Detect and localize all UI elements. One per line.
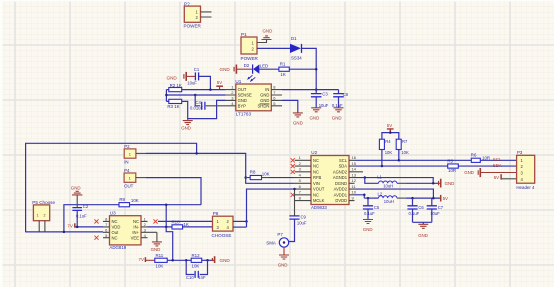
- svg-text:RFB: RFB: [313, 175, 321, 180]
- svg-text:AVDD2: AVDD2: [334, 187, 348, 192]
- svg-text:GND: GND: [260, 98, 269, 103]
- svg-text:10K: 10K: [156, 264, 164, 269]
- svg-text:L2: L2: [378, 191, 383, 196]
- svg-text:P7: P7: [277, 232, 283, 237]
- ground below U3 pin3: [151, 232, 162, 252]
- U3 right pin stubs: [141, 221, 157, 237]
- svg-text:GND: GND: [418, 233, 428, 238]
- svg-text:AVDD1: AVDD1: [334, 192, 348, 197]
- wire R9 row: [64, 205, 201, 232]
- svg-text:P5 Choose: P5 Choose: [32, 200, 55, 205]
- svg-text:CHOOSE: CHOOSE: [212, 233, 232, 238]
- resistor R4 10K (vertical): [379, 139, 392, 155]
- svg-text:DGND: DGND: [335, 181, 347, 186]
- svg-text:D2: D2: [244, 63, 250, 68]
- 5V port at U1 OUT: [216, 80, 223, 90]
- svg-text:2: 2: [44, 214, 46, 218]
- svg-text:GND: GND: [293, 121, 303, 126]
- capacitor C9 10uF: [289, 214, 307, 241]
- inductor L2 10uH: [378, 191, 397, 204]
- svg-text:P4: P4: [124, 168, 130, 173]
- svg-text:0.1uF: 0.1uF: [76, 214, 87, 219]
- svg-text:SENSE: SENSE: [238, 93, 252, 98]
- svg-text:NC: NC: [112, 219, 118, 224]
- ground below SMA: [278, 247, 289, 267]
- svg-text:LED: LED: [260, 63, 269, 68]
- svg-text:GND: GND: [263, 28, 273, 33]
- svg-text:R4: R4: [385, 139, 391, 144]
- svg-text:C6: C6: [418, 205, 424, 210]
- wire IN line: [282, 89, 339, 91]
- svg-text:R6: R6: [471, 152, 477, 157]
- ground below BYP loop: [181, 119, 193, 131]
- svg-text:10R: 10R: [482, 156, 490, 161]
- capacitor C8 0.1uF: [332, 90, 349, 108]
- op-amp U3 ADG819: [105, 211, 147, 251]
- resistor R3 1K: [167, 99, 181, 109]
- no-connect x U3 pin5: [94, 236, 98, 240]
- svg-text:10K: 10K: [401, 150, 409, 155]
- svg-text:SS34: SS34: [291, 56, 302, 61]
- U2 left pin stubs: [295, 160, 311, 200]
- svg-text:IN: IN: [265, 87, 269, 92]
- wire VOUT down to C9: [294, 189, 296, 216]
- U3 left pin stubs: [103, 221, 110, 237]
- svg-text:14: 14: [352, 167, 357, 172]
- regulator U1 LT1763: [231, 79, 276, 116]
- connector P3 Header 4: [516, 150, 535, 190]
- svg-text:AGND1: AGND1: [333, 175, 348, 180]
- svg-text:NC: NC: [133, 219, 139, 224]
- svg-text:GND: GND: [310, 116, 320, 121]
- svg-text:P6: P6: [213, 211, 219, 216]
- svg-text:R1: R1: [280, 62, 286, 67]
- P4 pin stub: [136, 177, 146, 179]
- connector P6 CHOOSE: [212, 211, 234, 238]
- svg-text:U3: U3: [110, 211, 116, 216]
- wire GND to LED D2: [237, 68, 253, 70]
- svg-text:U2: U2: [311, 150, 317, 155]
- svg-text:NC: NC: [313, 169, 319, 174]
- svg-text:R8: R8: [250, 170, 256, 175]
- svg-text:10K: 10K: [131, 198, 139, 203]
- svg-text:13: 13: [352, 172, 357, 177]
- wire L2 out to 5V port: [397, 197, 406, 199]
- resistor R2 1K: [169, 83, 182, 92]
- svg-text:R10: R10: [172, 220, 181, 225]
- wire P1 pin2 to D1: [257, 47, 290, 49]
- DDS U2 AD9833: [299, 150, 357, 210]
- no-connect x U2 pin1: [291, 158, 295, 162]
- wire OUT net to R9 line: [146, 178, 201, 205]
- svg-text:Out: Out: [112, 230, 120, 235]
- svg-text:Header 4: Header 4: [516, 185, 535, 190]
- inductor L1 10uH: [377, 175, 397, 189]
- svg-text:C1: C1: [194, 67, 200, 72]
- ground port right of L1: [439, 179, 441, 188]
- svg-text:GND: GND: [278, 263, 288, 268]
- svg-text:C4: C4: [196, 100, 202, 105]
- svg-text:GND: GND: [167, 75, 178, 80]
- svg-text:5V: 5V: [494, 175, 499, 180]
- diode D1 SS34: [290, 36, 302, 61]
- LED D2: [244, 63, 269, 81]
- svg-text:P?: P?: [184, 1, 190, 6]
- svg-text:POWER: POWER: [184, 24, 202, 29]
- svg-text:0.1uF: 0.1uF: [364, 211, 375, 216]
- svg-text:7V: 7V: [139, 257, 144, 262]
- svg-text:P3: P3: [517, 150, 523, 155]
- svg-text:0.01uF: 0.01uF: [190, 106, 203, 111]
- wire SCL row: [355, 159, 517, 161]
- wire U3 pin1 row to P6: [158, 220, 213, 222]
- svg-text:R11: R11: [156, 253, 164, 258]
- svg-text:NC: NC: [112, 235, 118, 240]
- svg-text:1nF: 1nF: [198, 275, 206, 280]
- svg-text:R3 1K: R3 1K: [167, 104, 179, 109]
- svg-text:5V: 5V: [387, 123, 392, 128]
- capacitor C6 0.1uF: [407, 198, 424, 222]
- wire SDA row: [355, 165, 517, 167]
- svg-text:IN-: IN-: [133, 225, 139, 230]
- wire R3 to U1 GND pin (loop): [182, 100, 226, 118]
- no-connect x U3 pin1: [153, 219, 157, 223]
- wire L1 out to GND port: [397, 182, 406, 184]
- wire P6 pin4 corner: [233, 226, 247, 228]
- junction C1 at OUT: [209, 88, 212, 91]
- wire IN net horizontal: [146, 153, 295, 183]
- svg-text:GND: GND: [220, 67, 231, 72]
- svg-text:OUT: OUT: [238, 87, 247, 92]
- wire jog junction to R11 node: [166, 227, 173, 260]
- wire pull-up top rail: [382, 133, 399, 140]
- wire U1 GND pin to ground: [282, 100, 298, 113]
- wire R7 down to SCL: [398, 150, 400, 161]
- svg-text:OUT: OUT: [124, 184, 134, 189]
- svg-text:AGND2: AGND2: [333, 169, 348, 174]
- wire U3 pin2 row / R10 row: [148, 226, 173, 228]
- svg-text:NC: NC: [313, 164, 319, 169]
- wire R11 to R12: [167, 259, 191, 261]
- svg-text:GND: GND: [71, 185, 81, 190]
- connector P5 Choose: [32, 200, 55, 221]
- ground above P1 (inverted): [262, 36, 272, 40]
- svg-text:IN+: IN+: [132, 230, 139, 235]
- svg-text:GND: GND: [464, 170, 474, 175]
- connector P1 POWER: [241, 32, 259, 61]
- junction IN net: [195, 152, 198, 155]
- U2 right pin stubs: [349, 160, 363, 200]
- svg-text:C9: C9: [301, 214, 307, 219]
- junction at IN line: [315, 88, 318, 91]
- svg-text:VOUT: VOUT: [313, 187, 325, 192]
- svg-text:C5: C5: [374, 205, 380, 210]
- connector P? POWER (top): [184, 1, 202, 28]
- svg-text:AD9833: AD9833: [311, 205, 327, 210]
- svg-text:C7: C7: [438, 205, 444, 210]
- ground port right of R12: [212, 256, 214, 263]
- svg-text:L1: L1: [377, 175, 382, 180]
- svg-text:7V: 7V: [67, 224, 72, 229]
- svg-text:GND: GND: [332, 116, 342, 121]
- capacitor C2 0.1uF: [72, 195, 88, 227]
- svg-text:10uF: 10uF: [430, 211, 440, 216]
- svg-text:GND: GND: [363, 227, 373, 232]
- svg-text:GND: GND: [260, 93, 269, 98]
- ground below C8: [334, 108, 344, 112]
- wire VOUT net: [247, 189, 295, 227]
- svg-text:R12: R12: [192, 253, 201, 258]
- no-connect x U3 pin8: [94, 219, 98, 223]
- wire SENSE row: [166, 94, 225, 96]
- junction RFB tap on IN net: [244, 176, 247, 179]
- svg-text:GND: GND: [445, 181, 455, 186]
- wire R4 down to SDA: [381, 150, 383, 167]
- svg-text:1K: 1K: [183, 222, 188, 227]
- U1 right pin stubs: [271, 90, 282, 106]
- junction input node at R1: [315, 68, 318, 71]
- pin stubs P?: [201, 12, 212, 17]
- svg-text:P2: P2: [124, 144, 130, 149]
- svg-text:R5: R5: [447, 158, 453, 163]
- SMA connector P7: [266, 232, 288, 247]
- svg-text:ADG819: ADG819: [109, 245, 126, 250]
- svg-text:10uH: 10uH: [384, 199, 394, 204]
- svg-text:LT1763: LT1763: [236, 111, 252, 116]
- wire down to L1 row: [365, 178, 379, 184]
- svg-text:10uH: 10uH: [383, 184, 393, 189]
- svg-text:10R: 10R: [448, 168, 456, 173]
- svg-text:10uF: 10uF: [297, 221, 307, 226]
- svg-text:VEE: VEE: [131, 235, 140, 240]
- wire C6 C7 bottom rail: [413, 222, 432, 224]
- svg-text:GND: GND: [181, 126, 191, 131]
- svg-text:VIN: VIN: [313, 181, 320, 186]
- wire P6 pin2 to VOUT net: [233, 220, 247, 222]
- wire AVDD1 row (pin10): [355, 195, 365, 198]
- U1 left pin stubs: [226, 90, 236, 106]
- svg-text:16: 16: [352, 155, 357, 160]
- svg-text:GND: GND: [238, 98, 247, 103]
- svg-text:C8: C8: [343, 92, 349, 97]
- wire 7V to R11: [146, 259, 155, 261]
- wire IN net top loop: [26, 143, 197, 232]
- svg-text:12: 12: [352, 178, 357, 183]
- svg-text:GND: GND: [220, 258, 231, 263]
- capacitor C5 0.1uF: [363, 197, 380, 220]
- ground below C5: [363, 220, 373, 224]
- svg-text:R7: R7: [402, 139, 408, 144]
- resistor R6 10R (SCL): [471, 152, 490, 162]
- svg-text:SCL: SCL: [493, 157, 502, 162]
- ground below C6 C7: [418, 224, 428, 228]
- resistor R10 1K: [172, 220, 189, 229]
- vertical joining R2 R3 SENSE: [166, 90, 168, 102]
- svg-text:SMA: SMA: [266, 241, 276, 246]
- wire R1 to input node: [289, 68, 316, 70]
- resistor R11 10K: [155, 253, 167, 268]
- svg-text:0.1uF: 0.1uF: [409, 211, 420, 216]
- svg-text:IN: IN: [124, 159, 128, 164]
- svg-text:SCL: SCL: [339, 158, 348, 163]
- resistor R9 10K: [119, 197, 139, 207]
- svg-text:SDA: SDA: [493, 163, 502, 168]
- svg-text:NC: NC: [313, 192, 319, 197]
- wire D1 to input node: [302, 48, 317, 89]
- svg-text:10uF: 10uF: [187, 80, 197, 85]
- resistor R7 10K (vertical): [396, 139, 409, 155]
- svg-text:D1: D1: [291, 36, 297, 41]
- wire OUT row: [182, 89, 226, 91]
- svg-text:MCLK: MCLK: [313, 198, 325, 203]
- wire P1 pin1 to GND: [257, 40, 267, 43]
- svg-text:U1: U1: [235, 79, 241, 84]
- svg-text:5V: 5V: [217, 80, 222, 85]
- wire VDD row: [75, 226, 103, 228]
- svg-text:C10: C10: [186, 275, 194, 280]
- svg-text:10K: 10K: [262, 171, 270, 176]
- connector P2 IN: [124, 144, 136, 164]
- svg-text:5V: 5V: [443, 196, 448, 201]
- ground below C3: [311, 108, 321, 112]
- wire U3 out row: [26, 231, 103, 233]
- wire R10 to P6 pin3: [183, 226, 213, 228]
- svg-text:C2: C2: [83, 204, 89, 209]
- sheet edge highlights: [0, 0, 2, 287]
- svg-text:NC: NC: [313, 158, 319, 163]
- capacitor C4 0.01uF: [190, 94, 226, 111]
- svg-text:15: 15: [352, 161, 357, 166]
- svg-text:P1: P1: [241, 32, 247, 37]
- ground below U1: [293, 113, 303, 117]
- svg-text:DVDD: DVDD: [335, 198, 347, 203]
- P5 pin stubs down: [39, 221, 45, 232]
- wire R8 to U2 RFB: [267, 177, 294, 179]
- capacitor C10 1nF (parallel R12): [186, 260, 208, 280]
- wire L2 row input: [364, 197, 378, 199]
- resistor R12 10K: [191, 253, 202, 268]
- capacitor C1 10uF: [186, 67, 210, 90]
- wire AVDD2 row (pin11): [355, 189, 434, 198]
- capacitor C7 10uF: [427, 198, 444, 222]
- svg-text:GND: GND: [151, 247, 161, 252]
- resistor R5 10R (SDA): [447, 158, 458, 172]
- svg-text:1K: 1K: [280, 72, 285, 77]
- no-connect x U2 pin3: [291, 170, 295, 174]
- connector P4 OUT: [124, 168, 136, 188]
- wire D2 to R1: [259, 68, 279, 70]
- 5V port right of L2: [440, 195, 442, 202]
- wire R12 to GND port: [202, 259, 214, 261]
- resistor R1 1K: [279, 62, 289, 77]
- svg-text:10: 10: [352, 190, 357, 195]
- svg-text:SDA: SDA: [339, 164, 348, 169]
- capacitor C3 10uF: [311, 90, 329, 108]
- resistor R8 10K (RFB): [246, 170, 270, 180]
- no-connect x U2 pin2: [291, 164, 295, 168]
- svg-text:10K: 10K: [385, 150, 393, 155]
- wire AGND1 row (pin13): [355, 178, 434, 184]
- no-connect x U2 pin7: [291, 193, 295, 197]
- svg-text:BYP: BYP: [238, 103, 247, 108]
- P2 pin stub: [136, 152, 146, 154]
- svg-text:C3: C3: [322, 91, 328, 96]
- svg-text:1: 1: [37, 214, 39, 218]
- svg-text:POWER: POWER: [241, 56, 259, 61]
- svg-text:10K: 10K: [192, 264, 200, 269]
- svg-text:VDD: VDD: [112, 225, 121, 230]
- svg-text:R9: R9: [119, 197, 125, 202]
- svg-text:R2 1K: R2 1K: [170, 83, 182, 88]
- wire R9 to R10 junction: [130, 205, 167, 227]
